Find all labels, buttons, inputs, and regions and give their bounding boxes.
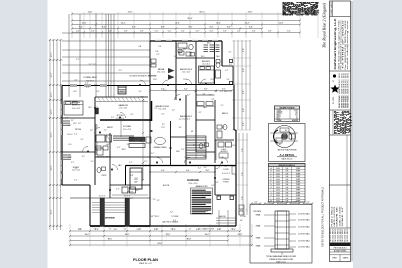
svg-text:3'-2": 3'-2" <box>78 123 82 125</box>
svg-text:3'-2": 3'-2" <box>71 120 75 122</box>
svg-text:11'-2": 11'-2" <box>97 124 99 128</box>
svg-text:3'-2": 3'-2" <box>75 168 79 170</box>
svg-text:10'-0": 10'-0" <box>232 145 236 147</box>
svg-text:3'-4": 3'-4" <box>171 228 174 230</box>
svg-text:5 OF 13: 5 OF 13 <box>343 258 349 260</box>
svg-text:PORCH: PORCH <box>223 182 228 184</box>
svg-text:9'-0": 9'-0" <box>243 68 245 72</box>
svg-text:3'-2": 3'-2" <box>216 182 220 184</box>
svg-text:CLO.: CLO. <box>68 144 72 146</box>
svg-text:5'-2": 5'-2" <box>140 30 144 32</box>
svg-text:F: F <box>271 182 272 184</box>
svg-text:B2: B2 <box>279 144 281 146</box>
svg-text:S.H.: S.H. <box>285 171 289 173</box>
svg-text:8'-0": 8'-0" <box>186 170 190 172</box>
svg-text:S.H.: S.H. <box>285 182 289 184</box>
svg-text:3'-0": 3'-0" <box>96 91 100 93</box>
svg-text:3'-2": 3'-2" <box>161 114 165 116</box>
svg-text:8'-2": 8'-2" <box>204 88 208 90</box>
svg-text:TEMP: TEMP <box>296 179 300 181</box>
svg-text:3'-2": 3'-2" <box>170 212 174 214</box>
svg-text:GREAT ROOM: GREAT ROOM <box>155 105 169 108</box>
svg-text:8'-6": 8'-6" <box>79 26 83 28</box>
svg-text:14'-0": 14'-0" <box>73 91 77 93</box>
svg-text:3'-8": 3'-8" <box>220 157 224 159</box>
svg-text:24'-8": 24'-8" <box>248 12 253 14</box>
svg-text:3'-2": 3'-2" <box>174 56 178 58</box>
svg-text:TEMP: TEMP <box>296 184 300 186</box>
svg-text:3050: 3050 <box>276 168 280 170</box>
svg-text:BEDRM 3: BEDRM 3 <box>202 61 210 63</box>
svg-text:3'-4": 3'-4" <box>156 228 159 230</box>
svg-text:7'-4": 7'-4" <box>220 105 224 107</box>
svg-text:COVERED PATIO: COVERED PATIO <box>83 76 97 79</box>
svg-text:S.H.: S.H. <box>285 190 289 192</box>
svg-text:7'-6": 7'-6" <box>242 196 244 200</box>
svg-text:04/12/21 REV.2: 04/12/21 REV.2 <box>337 229 339 242</box>
svg-text:18'-0": 18'-0" <box>205 234 210 236</box>
svg-text:JOB: 21-0335: JOB: 21-0335 <box>339 206 341 226</box>
svg-text:5'-2": 5'-2" <box>252 30 256 32</box>
svg-text:KITCHEN: KITCHEN <box>123 126 132 128</box>
svg-text:TEMP: TEMP <box>296 182 300 184</box>
svg-text:3'-2": 3'-2" <box>211 99 215 101</box>
svg-text:3'-2": 3'-2" <box>71 162 75 164</box>
svg-text:8'-6": 8'-6" <box>227 26 231 28</box>
svg-text:3'-2": 3'-2" <box>68 125 72 127</box>
svg-text:24'-8": 24'-8" <box>128 12 133 14</box>
svg-text:CASUAL DINING: CASUAL DINING <box>153 146 167 149</box>
svg-text:S.H.: S.H. <box>285 187 289 189</box>
svg-text:3'-2": 3'-2" <box>228 51 232 53</box>
svg-text:5'-2": 5'-2" <box>210 30 214 32</box>
svg-text:3'-4": 3'-4" <box>79 228 82 230</box>
svg-text:38'-0": 38'-0" <box>108 238 113 240</box>
svg-text:3'-2": 3'-2" <box>105 145 109 147</box>
svg-text:A-A DETAIL: A-A DETAIL <box>280 153 295 157</box>
svg-text:5'-2": 5'-2" <box>155 30 159 32</box>
svg-text:S.H.: S.H. <box>285 192 289 194</box>
svg-text:04/12/21 REV.2: 04/12/21 REV.2 <box>332 229 334 242</box>
svg-text:8'-0 x 11'-0: 8'-0 x 11'-0 <box>222 173 230 175</box>
svg-text:B: B <box>270 171 271 173</box>
svg-text:BATH 2: BATH 2 <box>222 112 228 115</box>
svg-text:UP: UP <box>191 131 193 133</box>
svg-text:5'-2": 5'-2" <box>168 30 172 32</box>
svg-text:13'-2": 13'-2" <box>73 123 77 125</box>
svg-text:3050: 3050 <box>276 182 280 184</box>
svg-text:5'-2": 5'-2" <box>91 30 95 32</box>
svg-text:3050: 3050 <box>276 192 280 194</box>
svg-text:17'-4": 17'-4" <box>161 127 165 129</box>
svg-text:12'-0 x 17'-0: 12'-0 x 17'-0 <box>123 129 131 131</box>
svg-text:9'-2": 9'-2" <box>221 127 225 129</box>
svg-text:TX FIRM #F-90210: TX FIRM #F-90210 <box>343 20 345 69</box>
svg-text:3'-0" 3'-0": 3'-0" 3'-0" <box>124 196 131 198</box>
svg-text:COVERED: COVERED <box>222 179 230 181</box>
svg-text:3'-2": 3'-2" <box>172 109 176 111</box>
svg-text:7'-6": 7'-6" <box>242 148 244 152</box>
svg-text:3'-2": 3'-2" <box>104 129 108 131</box>
svg-text:REFER TO BUILDER FOR ALL PRODU: REFER TO BUILDER FOR ALL PRODUCT APPROVA… <box>321 187 324 247</box>
svg-text:The Royal Blue 2 (Elegant): The Royal Blue 2 (Elegant) <box>322 2 327 48</box>
svg-text:3'-2": 3'-2" <box>136 190 140 192</box>
svg-text:12'-8": 12'-8" <box>153 79 157 81</box>
svg-text:9'-0": 9'-0" <box>243 122 245 126</box>
svg-text:18'-0": 18'-0" <box>166 234 171 236</box>
svg-text:5/8" TYPE X: 5/8" TYPE X <box>151 216 159 218</box>
svg-text:SITTING: SITTING <box>75 129 82 131</box>
svg-text:04/12/21 REV.2: 04/12/21 REV.2 <box>330 229 332 242</box>
svg-text:16'-0 x 14'-2: 16'-0 x 14'-2 <box>72 108 80 110</box>
svg-text:5'-6": 5'-6" <box>203 167 207 169</box>
svg-text:3'-2": 3'-2" <box>85 83 89 85</box>
svg-text:9'-0": 9'-0" <box>114 229 118 231</box>
svg-text:3'-2": 3'-2" <box>141 96 145 98</box>
svg-text:5'-0": 5'-0" <box>80 139 84 141</box>
svg-text:email: info@cceng.com: email: info@cceng.com <box>347 19 349 70</box>
svg-text:3'-2": 3'-2" <box>119 70 123 72</box>
svg-text:WINDOW SCHEDULE: WINDOW SCHEDULE <box>279 165 295 167</box>
svg-text:04/12/21 REV.2: 04/12/21 REV.2 <box>342 229 344 242</box>
svg-text:TEMP: TEMP <box>296 187 300 189</box>
svg-text:8'-6": 8'-6" <box>210 26 214 28</box>
svg-text:3'-4": 3'-4" <box>231 228 234 230</box>
svg-text:3'-2": 3'-2" <box>111 117 115 119</box>
svg-text:17'-4 x 16'-8: 17'-4 x 16'-8 <box>158 109 166 111</box>
svg-text:3'-4": 3'-4" <box>109 228 112 230</box>
svg-text:3'-4": 3'-4" <box>124 228 127 230</box>
svg-text:8'-8": 8'-8" <box>214 91 218 93</box>
svg-text:5'-2": 5'-2" <box>287 30 291 32</box>
svg-text:4'-2": 4'-2" <box>267 201 271 203</box>
svg-text:3'-2": 3'-2" <box>229 64 233 66</box>
svg-text:3'-6": 3'-6" <box>178 127 182 129</box>
svg-text:3'-2": 3'-2" <box>76 59 80 61</box>
svg-text:MEDIA: MEDIA <box>158 68 165 71</box>
svg-text:3'-2": 3'-2" <box>74 80 78 82</box>
svg-text:3050: 3050 <box>276 187 280 189</box>
svg-text:12'-2": 12'-2" <box>51 92 53 97</box>
svg-text:3'-2": 3'-2" <box>86 87 90 89</box>
svg-text:3'-2": 3'-2" <box>144 161 148 163</box>
svg-text:3'-2": 3'-2" <box>157 200 161 202</box>
svg-text:04/12/21 REV.2: 04/12/21 REV.2 <box>347 229 349 242</box>
svg-text:3'-2": 3'-2" <box>90 130 94 132</box>
svg-text:13'-4 x 12'-0: 13'-4 x 12'-0 <box>157 72 165 74</box>
svg-text:TEMP: TEMP <box>296 195 300 197</box>
svg-text:BEDROOM 2: BEDROOM 2 <box>180 116 193 118</box>
svg-text:Fax: (832)555-0118 TBPE Reg.: Fax: (832)555-0118 TBPE Reg. #1234 <box>345 20 347 69</box>
svg-text:3'-2": 3'-2" <box>129 162 133 164</box>
svg-text:11'-0 x 12'-0: 11'-0 x 12'-0 <box>182 72 190 74</box>
svg-text:9'-0": 9'-0" <box>243 108 245 112</box>
svg-text:3'-2": 3'-2" <box>74 180 78 182</box>
svg-text:12'-2": 12'-2" <box>51 165 53 170</box>
svg-text:Ph: (832)555-0117 www.cceng.c: Ph: (832)555-0117 www.cceng.com <box>341 19 343 69</box>
svg-text:3'-2": 3'-2" <box>130 114 134 116</box>
svg-text:8'-2": 8'-2" <box>184 88 188 90</box>
svg-text:3'-2": 3'-2" <box>225 166 229 168</box>
svg-text:11'-0 x 11'-6: 11'-0 x 11'-6 <box>182 119 190 121</box>
svg-text:3'-2": 3'-2" <box>65 118 69 120</box>
svg-text:S.H.: S.H. <box>285 198 289 200</box>
svg-text:3'-2": 3'-2" <box>173 220 177 222</box>
svg-text:9'-0": 9'-0" <box>243 90 245 94</box>
svg-text:11'-2": 11'-2" <box>97 106 99 110</box>
svg-text:S.H.: S.H. <box>285 173 289 175</box>
svg-text:TEMP: TEMP <box>296 168 300 170</box>
svg-text:3'-2": 3'-2" <box>94 84 98 86</box>
svg-text:7'-6": 7'-6" <box>242 172 244 176</box>
svg-text:4'-2": 4'-2" <box>254 201 258 203</box>
svg-text:2'-4": 2'-4" <box>90 161 94 163</box>
svg-text:8'-2": 8'-2" <box>222 88 226 90</box>
svg-text:04/12/21 REV.2: 04/12/21 REV.2 <box>335 229 337 242</box>
svg-text:3'-2": 3'-2" <box>117 147 121 149</box>
svg-text:8'-6": 8'-6" <box>189 26 193 28</box>
svg-text:TEMP: TEMP <box>296 190 300 192</box>
svg-text:3'-4": 3'-4" <box>219 228 222 230</box>
svg-text:S.H.: S.H. <box>285 176 289 178</box>
svg-text:5'-2": 5'-2" <box>223 30 227 32</box>
svg-text:3'-2": 3'-2" <box>135 178 139 180</box>
svg-text:11'-6": 11'-6" <box>68 157 72 159</box>
svg-text:4'-2": 4'-2" <box>280 201 284 203</box>
svg-text:BEDROOM 4: BEDROOM 4 <box>180 69 193 71</box>
svg-text:5'-2": 5'-2" <box>181 30 185 32</box>
svg-text:3'-2": 3'-2" <box>153 199 157 201</box>
svg-text:5'-4": 5'-4" <box>138 91 142 93</box>
svg-text:FOYER: FOYER <box>223 169 229 171</box>
svg-text:6'-8": 6'-8" <box>130 175 134 177</box>
svg-text:5'-2": 5'-2" <box>268 30 272 32</box>
svg-text:5'-2": 5'-2" <box>237 30 241 32</box>
svg-text:8'-6": 8'-6" <box>249 26 253 28</box>
svg-text:12'-2": 12'-2" <box>51 72 53 77</box>
svg-text:3'-2": 3'-2" <box>179 119 183 121</box>
svg-text:3050: 3050 <box>276 184 280 186</box>
svg-text:W.I.C.: W.I.C. <box>201 56 206 58</box>
svg-text:14'-4": 14'-4" <box>216 22 221 24</box>
svg-text:3'-4": 3'-4" <box>94 228 97 230</box>
svg-text:3050: 3050 <box>276 190 280 192</box>
svg-text:5'-2": 5'-2" <box>108 30 112 32</box>
svg-text:3050: 3050 <box>276 195 280 197</box>
svg-text:GARAGE: GARAGE <box>187 178 199 182</box>
svg-text:12'-0": 12'-0" <box>210 79 214 81</box>
svg-text:14'-4": 14'-4" <box>121 22 126 24</box>
svg-text:3'-2": 3'-2" <box>198 167 202 169</box>
svg-text:FLOOR PLAN: FLOOR PLAN <box>133 258 158 262</box>
svg-text:4'-2": 4'-2" <box>198 112 202 114</box>
svg-text:3'-2": 3'-2" <box>181 149 185 151</box>
svg-text:S.H.: S.H. <box>285 201 289 203</box>
svg-text:TILE DECK: TILE DECK <box>86 81 94 83</box>
svg-text:3'-2": 3'-2" <box>211 185 215 187</box>
svg-text:L: L <box>271 198 272 200</box>
svg-text:3'-2": 3'-2" <box>154 108 158 110</box>
svg-text:3'-2": 3'-2" <box>151 153 155 155</box>
svg-text:7'-0": 7'-0" <box>184 157 188 159</box>
svg-text:TEMP: TEMP <box>296 173 300 175</box>
svg-text:3'-2": 3'-2" <box>125 200 129 202</box>
svg-text:BATH 3: BATH 3 <box>183 48 189 51</box>
svg-text:GAME RM: GAME RM <box>118 104 128 107</box>
svg-text:CalhCourt Engineering, LLC: CalhCourt Engineering, LLC <box>333 17 337 69</box>
svg-text:R1: R1 <box>285 130 287 132</box>
svg-text:17'-4 x 13'-0: 17'-4 x 13'-0 <box>119 108 127 110</box>
svg-text:S.H.: S.H. <box>285 195 289 197</box>
svg-text:3'-2": 3'-2" <box>156 54 160 56</box>
svg-text:3'-2": 3'-2" <box>187 94 191 96</box>
svg-text:8'-2": 8'-2" <box>161 88 165 90</box>
svg-text:12'-2": 12'-2" <box>51 52 53 57</box>
svg-text:8'-0": 8'-0" <box>206 170 210 172</box>
svg-text:3'-2": 3'-2" <box>209 95 213 97</box>
svg-text:4'-2": 4'-2" <box>293 201 297 203</box>
svg-text:12'-2": 12'-2" <box>51 109 53 114</box>
svg-text:5'-2": 5'-2" <box>196 30 200 32</box>
svg-text:W.I.C.: W.I.C. <box>122 149 127 151</box>
svg-text:TEMP: TEMP <box>296 192 300 194</box>
svg-text:TEMP: TEMP <box>296 176 300 178</box>
svg-text:COVER SHEET: COVER SHEET <box>331 2 333 16</box>
svg-text:3'-2": 3'-2" <box>74 133 78 135</box>
svg-text:TEMP: TEMP <box>296 171 300 173</box>
svg-text:MASTER BATH: MASTER BATH <box>97 156 110 159</box>
svg-text:18'-0": 18'-0" <box>85 234 90 236</box>
svg-text:3'-2": 3'-2" <box>202 94 206 96</box>
svg-text:3'-2": 3'-2" <box>162 124 166 126</box>
svg-text:S.H.: S.H. <box>285 168 289 170</box>
svg-text:6'-0": 6'-0" <box>194 91 198 93</box>
svg-text:8'-0": 8'-0" <box>161 170 165 172</box>
svg-text:BEDROOM: BEDROOM <box>72 105 81 107</box>
svg-text:23'-0 x 21'-0: 23'-0 x 21'-0 <box>188 183 197 185</box>
svg-text:4'-2": 4'-2" <box>306 201 310 203</box>
svg-text:9'-8": 9'-8" <box>158 46 162 48</box>
svg-text:5'-0": 5'-0" <box>226 79 230 81</box>
svg-text:24'-8": 24'-8" <box>88 12 93 14</box>
svg-text:9'-0": 9'-0" <box>243 48 245 52</box>
svg-text:15'-2": 15'-2" <box>141 137 143 142</box>
svg-text:UTILITY: UTILITY <box>127 192 134 194</box>
svg-text:04/12/21 REV.2: 04/12/21 REV.2 <box>340 229 342 242</box>
svg-text:11'-2": 11'-2" <box>97 142 99 146</box>
svg-text:84'-0": 84'-0" <box>199 12 204 14</box>
svg-text:3'-2": 3'-2" <box>93 64 97 66</box>
svg-text:8'-6": 8'-6" <box>102 26 106 28</box>
svg-text:TEMP: TEMP <box>296 198 300 200</box>
svg-text:38'-0": 38'-0" <box>187 238 192 240</box>
svg-text:3'-4": 3'-4" <box>139 228 142 230</box>
svg-text:DRIVEWAY: DRIVEWAY <box>105 217 116 220</box>
svg-text:MASTER: MASTER <box>72 101 81 104</box>
svg-text:3050: 3050 <box>276 176 280 178</box>
svg-text:04/12/21 REV.2: 04/12/21 REV.2 <box>345 229 347 242</box>
svg-text:4" CONC: 4" CONC <box>240 216 246 218</box>
svg-text:3050: 3050 <box>276 171 280 173</box>
svg-text:16'-0": 16'-0" <box>88 107 92 109</box>
svg-text:3'-2": 3'-2" <box>126 144 130 146</box>
svg-text:3'-4": 3'-4" <box>189 228 192 230</box>
svg-text:12'-2": 12'-2" <box>51 209 53 214</box>
svg-text:10'-8": 10'-8" <box>120 91 124 93</box>
svg-text:14'-4": 14'-4" <box>245 22 250 24</box>
svg-text:12'-2": 12'-2" <box>51 132 53 137</box>
svg-text:3'-2": 3'-2" <box>116 188 120 190</box>
svg-text:5'-2": 5'-2" <box>124 30 128 32</box>
svg-text:W.I.C.: W.I.C. <box>207 43 212 45</box>
svg-text:E: E <box>270 179 271 181</box>
svg-text:5'-2": 5'-2" <box>76 30 80 32</box>
svg-text:3'-2": 3'-2" <box>193 145 197 147</box>
svg-text:12'-0 x 11'-6: 12'-0 x 11'-6 <box>202 64 210 66</box>
svg-text:3050: 3050 <box>276 198 280 200</box>
svg-text:P.E. 90210: P.E. 90210 <box>333 97 335 104</box>
svg-text:96: 96 <box>296 118 298 120</box>
svg-text:3'-2": 3'-2" <box>206 211 210 213</box>
svg-text:14'-4": 14'-4" <box>279 22 284 24</box>
svg-text:MUD RM: MUD RM <box>163 185 170 187</box>
svg-text:3'-2": 3'-2" <box>225 70 229 72</box>
svg-text:3'-2": 3'-2" <box>178 53 182 55</box>
svg-text:M.CLO: M.CLO <box>68 134 74 136</box>
svg-text:SHEET: SHEET <box>332 258 337 260</box>
svg-text:1/2" REINF: 1/2" REINF <box>171 216 178 218</box>
svg-text:3'-2": 3'-2" <box>82 156 86 158</box>
svg-text:3050: 3050 <box>276 179 280 181</box>
svg-text:3050: 3050 <box>276 173 280 175</box>
svg-text:3'-0" 3'-0": 3'-0" 3'-0" <box>99 196 106 198</box>
svg-text:3'-2": 3'-2" <box>130 198 134 200</box>
svg-text:S.H.: S.H. <box>285 184 289 186</box>
svg-text:S.H.: S.H. <box>285 179 289 181</box>
svg-text:11'-0": 11'-0" <box>183 79 187 81</box>
svg-text:16'-0 x 8'-0 O.H. DOOR: 16'-0 x 8'-0 O.H. DOOR <box>198 229 215 231</box>
